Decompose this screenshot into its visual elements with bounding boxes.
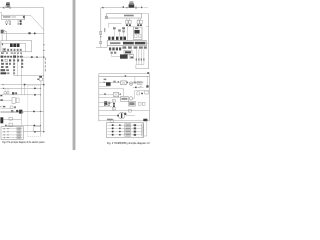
frame left vertical bbox=[100, 8, 102, 48]
tiny label row7 bbox=[107, 119, 113, 121]
label text E bbox=[3, 106, 5, 107]
connector Xc bbox=[137, 20, 139, 23]
diamond right bbox=[141, 93, 143, 95]
U10 pins bbox=[127, 18, 141, 20]
rung row6 bbox=[99, 115, 135, 117]
dark box left row4 bbox=[104, 101, 107, 105]
switch S2 bbox=[31, 56, 33, 58]
fuse row 3 bbox=[2, 134, 23, 136]
wire right of heater bbox=[119, 94, 121, 96]
vertical link wires bbox=[21, 85, 24, 95]
page gutter shadow bbox=[72, 0, 76, 150]
switch row1b bbox=[138, 86, 141, 88]
gauge G2 bbox=[129, 97, 132, 100]
box right row2 bbox=[145, 91, 148, 94]
grid row4 bbox=[1, 63, 4, 65]
horn H1 bbox=[39, 78, 43, 82]
fuse F10 bbox=[126, 7, 127, 8]
blob right row1 bbox=[134, 82, 137, 84]
label text D bbox=[0, 99, 3, 100]
rung row2 bbox=[99, 89, 124, 97]
margin note text bbox=[44, 58, 47, 60]
wire right row1b bbox=[133, 86, 144, 88]
wire to K2 bbox=[3, 100, 12, 102]
U2 lower part A bbox=[3, 48, 6, 51]
component K1 label bbox=[6, 2, 9, 3]
diamond lower bbox=[34, 125, 36, 127]
bus junction dot bbox=[43, 56, 44, 57]
small box on rung5 bbox=[129, 109, 132, 112]
bus top line1 bbox=[99, 73, 150, 75]
diamond row1b bbox=[135, 87, 137, 89]
switch S1 bbox=[28, 32, 30, 34]
relay box text row3 bbox=[121, 96, 129, 101]
right parts row4 bbox=[128, 101, 135, 106]
wire right bus vertical bbox=[43, 8, 45, 132]
svg-text:Fig.2 The principle diagram of: Fig.2 The principle diagram of the elect… bbox=[2, 140, 45, 144]
module wire horizontal bbox=[128, 25, 149, 27]
junction tick bbox=[123, 6, 124, 8]
distribution box outline bbox=[107, 123, 144, 138]
wire row E bbox=[1, 108, 11, 110]
relay grid block bbox=[1, 52, 46, 84]
sensor B1 body bbox=[1, 30, 4, 33]
wire bottom left bbox=[96, 46, 107, 48]
wire stub left bbox=[0, 13, 2, 16]
motor M11 circle bbox=[118, 112, 125, 119]
wire long horizontal B bbox=[1, 87, 41, 89]
small contact bbox=[5, 125, 6, 126]
rung row1 bbox=[99, 81, 121, 83]
module box bbox=[134, 27, 143, 40]
wire box right to frame bbox=[142, 13, 149, 15]
strip text right dark bbox=[123, 42, 134, 45]
blob F bbox=[16, 110, 18, 112]
gauge G1 bbox=[129, 82, 133, 86]
wrap wire bottom bbox=[136, 65, 149, 69]
contact marks bbox=[113, 81, 116, 83]
diamond on bus bbox=[33, 111, 35, 113]
module U2 box bbox=[1, 40, 32, 51]
box row7 bbox=[111, 120, 114, 123]
svg-text:Fig. 3 YD485(485) principle di: Fig. 3 YD485(485) principle diagram of t bbox=[107, 141, 150, 145]
wire row7 full bbox=[99, 120, 150, 122]
label row below strip bbox=[123, 46, 127, 48]
M11 right blob bbox=[124, 113, 126, 115]
U2 title text bold bbox=[10, 44, 13, 47]
pin wire b bbox=[119, 32, 121, 37]
drops from bus right bbox=[135, 76, 148, 85]
lamp symbol bbox=[9, 7, 11, 9]
control unit U1 box bbox=[2, 15, 25, 19]
inline part on frame lower bbox=[100, 41, 102, 44]
rung row2b bbox=[99, 94, 114, 96]
wire from M1 bbox=[3, 118, 21, 120]
mark beside row E box bbox=[14, 106, 16, 108]
relay K2 box bbox=[12, 98, 15, 104]
fuse row 1 bbox=[2, 128, 23, 130]
label row1 bbox=[104, 79, 107, 81]
U2 inner divider bbox=[1, 43, 26, 52]
U2 lower part C bbox=[14, 49, 16, 51]
controller box U10 bbox=[107, 14, 142, 19]
rung row4a bbox=[99, 102, 113, 104]
contact pair bbox=[4, 92, 6, 94]
fuse F2 bbox=[3, 84, 4, 85]
diamond fuse wire bbox=[34, 131, 36, 133]
vertical link bbox=[20, 111, 22, 125]
sensor B1 lamp bbox=[4, 31, 6, 33]
rung row3 bbox=[99, 97, 121, 99]
wire right section bbox=[135, 90, 150, 92]
U1 label text bbox=[3, 16, 11, 17]
junction dot bbox=[36, 56, 37, 57]
comb connector pins bbox=[136, 58, 137, 60]
dark module M10 bbox=[120, 54, 128, 58]
pin wire c bbox=[123, 32, 125, 36]
grid row3 relays bbox=[1, 59, 3, 61]
fuse row 4 bbox=[2, 137, 23, 139]
horn H1 label bbox=[39, 76, 42, 78]
grid row5 bbox=[1, 66, 4, 68]
left frame vertical bbox=[98, 74, 100, 122]
fuse row1 bbox=[104, 82, 105, 83]
mark after heater bbox=[120, 94, 121, 95]
module wire vertical bbox=[127, 26, 129, 40]
comb vertical wires bbox=[136, 49, 144, 64]
frame margin label bbox=[104, 28, 105, 32]
ground marks bbox=[6, 23, 7, 26]
grid vertical wires bbox=[14, 52, 21, 84]
M11 left diamond bbox=[117, 115, 119, 117]
wire lower connect bbox=[14, 75, 44, 77]
small blob bbox=[15, 92, 17, 94]
small box beside bbox=[130, 54, 134, 58]
arrow on top wire bbox=[102, 7, 103, 8]
U10 text bbox=[124, 15, 134, 17]
lamp L10 bbox=[135, 7, 137, 9]
junction arrow bbox=[24, 84, 26, 86]
connector X2 bbox=[9, 21, 11, 23]
wire row to bus bbox=[23, 56, 44, 58]
diamond connector B bbox=[34, 88, 36, 90]
dist row3 bbox=[107, 131, 143, 133]
grid row6 bbox=[1, 69, 6, 71]
wire top horizontal bbox=[0, 7, 44, 9]
wire strip to frame bbox=[147, 42, 149, 44]
wire L link bbox=[108, 23, 121, 27]
IC left edge wire bbox=[106, 46, 108, 48]
wire G2 link bbox=[133, 97, 135, 99]
pin label cluster c bbox=[122, 27, 125, 29]
mark before heater bbox=[104, 93, 106, 94]
bus tick marks bbox=[43, 44, 44, 45]
wire from U1 to bus diagonal bbox=[25, 15, 44, 29]
vertical link right bbox=[134, 91, 136, 99]
wire into dark module bbox=[111, 54, 120, 56]
label text C bbox=[0, 95, 2, 96]
strip text left bbox=[110, 42, 120, 44]
wire mid horizontal bbox=[1, 32, 44, 34]
junction diamond bbox=[34, 33, 36, 35]
pin label cluster b bbox=[118, 29, 121, 31]
strip bottom left pins bbox=[109, 47, 111, 50]
connector block CB bbox=[34, 126, 41, 131]
harness right edge bbox=[40, 86, 42, 137]
fuse row 2 bbox=[2, 131, 23, 133]
pin label cluster a bbox=[113, 27, 116, 29]
connector Xb bbox=[129, 20, 131, 23]
extra marks row4 bbox=[104, 104, 106, 106]
frame top wire bbox=[101, 7, 144, 9]
wire horn down bbox=[40, 81, 42, 86]
bus tick bbox=[125, 75, 126, 77]
relay K10 body bbox=[129, 4, 135, 7]
resistor R1 bbox=[9, 117, 12, 120]
grid row1 labels bbox=[1, 52, 4, 53]
wire double bus lower bbox=[1, 111, 24, 113]
wire fusebox to bus bbox=[23, 131, 44, 133]
terminal stack labels bbox=[20, 20, 22, 22]
U10 left junction blob bbox=[105, 16, 108, 19]
wire horizontal C bbox=[1, 94, 41, 96]
junction dark right bbox=[146, 85, 148, 87]
contact tick wires bbox=[5, 88, 8, 92]
box right row1 bbox=[137, 81, 142, 84]
U2 pin label bbox=[2, 44, 3, 46]
tick on frame bbox=[100, 36, 101, 37]
fuse F1 bbox=[3, 7, 5, 9]
box on double bus bbox=[11, 110, 13, 112]
IC top pin row bbox=[108, 37, 110, 40]
heater box with X bbox=[114, 92, 119, 97]
dist row1 bbox=[107, 124, 143, 126]
dashed continuation dots bbox=[143, 6, 146, 9]
harness dashed box bbox=[28, 86, 41, 137]
junction dots on harness edge bbox=[40, 88, 41, 89]
relay K2b box bbox=[16, 98, 19, 103]
switch box with X bbox=[12, 92, 14, 94]
starter S10 dark bbox=[106, 82, 111, 85]
wire lower bbox=[5, 124, 41, 126]
relay K1 upper bbox=[6, 3, 10, 5]
dist row2 bbox=[107, 127, 143, 129]
fuse box outline bbox=[1, 127, 23, 140]
U1 extra text bbox=[12, 17, 17, 18]
module dark core bbox=[134, 30, 139, 34]
wire double bus upper bbox=[1, 110, 44, 112]
relay box text bbox=[125, 51, 131, 53]
relay K3 dark bbox=[19, 110, 22, 114]
wire sensor to node bbox=[2, 31, 7, 40]
relay K1 body bbox=[6, 5, 10, 7]
motor M1 dark bbox=[0, 117, 3, 123]
M11 core bar bbox=[121, 113, 122, 118]
right link vertical bbox=[144, 121, 147, 136]
pin wires below U1 bbox=[7, 20, 10, 22]
wire long horizontal A bbox=[1, 84, 44, 86]
mark after fan bbox=[127, 82, 128, 84]
U2 lower part B bbox=[7, 49, 9, 51]
inline fuse on left frame bbox=[100, 31, 102, 34]
terminal strip long box bbox=[107, 41, 146, 46]
vertical component chain bbox=[113, 100, 115, 111]
bus top line2 bbox=[99, 75, 150, 77]
plus mark bbox=[0, 106, 1, 107]
diamond connector C bbox=[34, 94, 36, 96]
grid row2 contacts bbox=[1, 56, 4, 58]
U1 right terminal bbox=[23, 16, 25, 18]
junction dot B bbox=[3, 88, 4, 89]
component row E box bbox=[10, 106, 13, 109]
grid row7 label strip bbox=[1, 72, 7, 74]
dist row4 bbox=[107, 134, 143, 136]
module label bbox=[135, 28, 138, 29]
marks row4 bbox=[108, 102, 110, 104]
pin wire a bbox=[113, 29, 115, 36]
wire right row1 bbox=[133, 82, 144, 84]
rung row4b bbox=[99, 105, 113, 107]
resistor R2 bbox=[9, 123, 12, 126]
connector Xd bbox=[140, 20, 142, 23]
connector Xa bbox=[126, 20, 128, 23]
module lower parts bbox=[135, 35, 137, 38]
relay K10 label bbox=[130, 1, 134, 2]
wire with arrow bbox=[17, 20, 19, 25]
dark junction right bbox=[143, 119, 147, 122]
right frame vertical bbox=[148, 74, 150, 121]
corner tick bbox=[147, 72, 149, 74]
rung row5 full bbox=[99, 110, 150, 112]
marks below left pins bbox=[111, 52, 113, 54]
fan box with X bbox=[121, 81, 127, 85]
ground marks row bbox=[126, 24, 128, 26]
connector X1 bbox=[6, 21, 8, 23]
comb bottom bus bbox=[136, 64, 144, 66]
horn contact bbox=[37, 79, 38, 80]
small box below bbox=[137, 92, 140, 95]
junction with stub bbox=[141, 6, 143, 8]
frame right vertical bbox=[148, 14, 150, 69]
relay box with text bbox=[124, 50, 132, 54]
